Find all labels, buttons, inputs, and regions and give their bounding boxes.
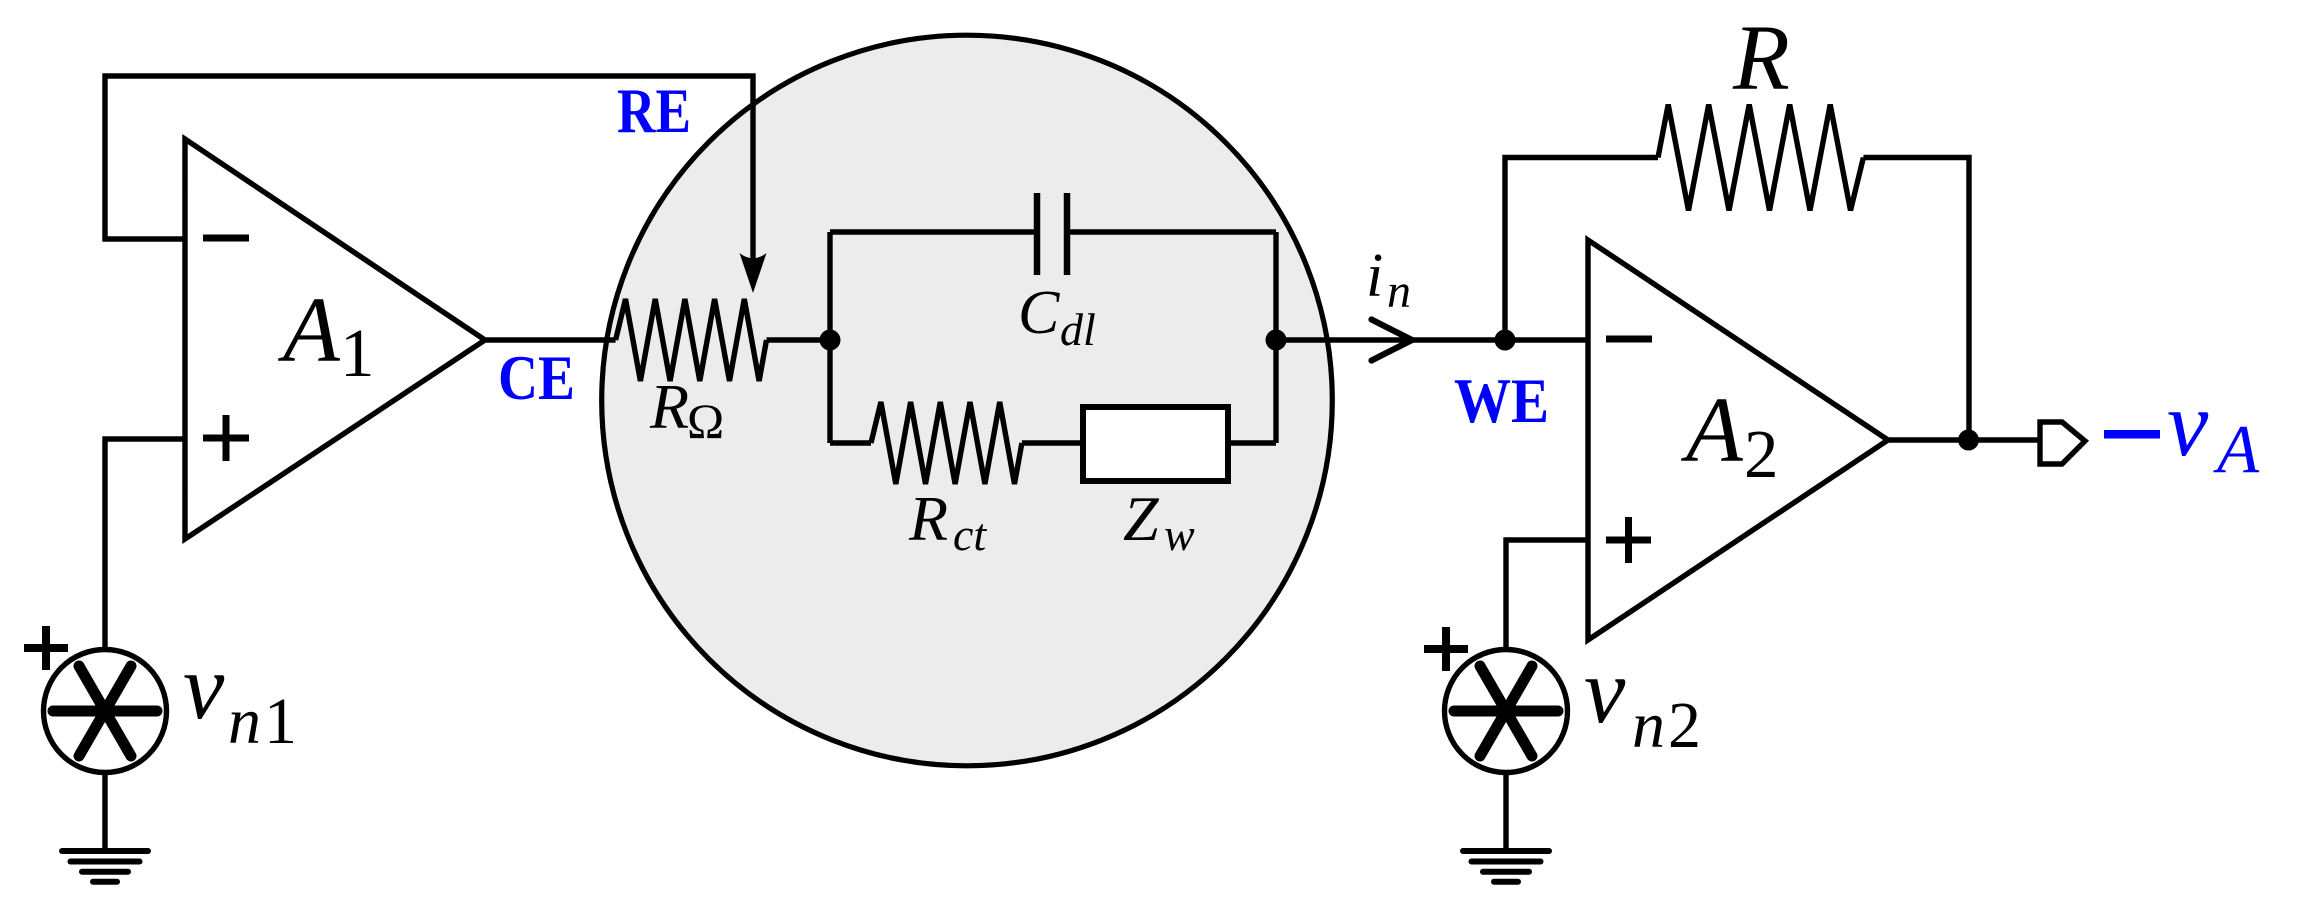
svg-text:Ω: Ω [687, 393, 724, 449]
wire Zw to right junction [1228, 440, 1276, 445]
node label CE [498, 343, 575, 413]
svg-text:v: v [183, 636, 225, 739]
node label RE [617, 76, 691, 146]
svg-text:CE: CE [498, 343, 575, 413]
svg-text:RE: RE [617, 76, 691, 146]
svg-text:R: R [908, 483, 948, 554]
svg-text:Z: Z [1123, 483, 1160, 554]
output tag [2040, 422, 2085, 464]
svg-text:n: n [1632, 689, 1665, 762]
svg-text:2: 2 [1668, 689, 1701, 762]
wire bottom branch left [830, 440, 871, 445]
junction dot output node [1958, 430, 1979, 451]
wire Rct to Zw [1022, 440, 1083, 445]
label Rct [908, 483, 987, 560]
svg-text:v: v [1584, 640, 1626, 743]
wire A2 noninverting input [1506, 540, 1588, 651]
ground GND1 [62, 851, 148, 882]
label Cdl [1018, 279, 1096, 355]
A1 minus pin mark [203, 235, 249, 242]
current arrow in [1372, 320, 1413, 361]
capacitor Cdl [1037, 193, 1067, 275]
wire WE to A2 inverting input [1505, 337, 1588, 342]
node label WE [1454, 365, 1549, 436]
A2 minus pin mark [1606, 336, 1652, 343]
label R [1732, 7, 1790, 110]
vn1 plus polarity mark [24, 626, 68, 670]
vn1 asterisk [53, 666, 157, 756]
svg-text:w: w [1164, 509, 1195, 560]
wire A1 feedback: inverting input to RE [105, 76, 753, 268]
RE arrowhead [740, 253, 767, 293]
resistor Rct [871, 402, 1022, 484]
ground GND2 [1463, 851, 1549, 882]
label vn1 [183, 636, 297, 758]
label -vA [2104, 373, 2260, 487]
svg-text:WE: WE [1454, 365, 1549, 436]
wire A1 output to cell (node CE) [485, 337, 616, 342]
wire vn2 to ground [1503, 773, 1508, 852]
wire left branch vertical [827, 232, 832, 443]
wire A1 noninverting input [105, 439, 185, 650]
junction dot left node [820, 330, 841, 351]
svg-text:v: v [2167, 373, 2209, 476]
wire A2 output [1888, 437, 2038, 442]
wire R_Omega to left junction [767, 337, 831, 342]
svg-text:ct: ct [953, 509, 987, 560]
wire R to output node [1863, 158, 1969, 441]
svg-text:A: A [277, 279, 341, 382]
label A1 [277, 279, 375, 391]
svg-text:dl: dl [1060, 304, 1096, 355]
electrochemical cell boundary [602, 35, 1333, 766]
label A2 [1680, 379, 1779, 492]
noise source vn1 [44, 650, 167, 773]
junction dot right node [1266, 330, 1287, 351]
svg-text:R: R [649, 371, 689, 442]
svg-text:1: 1 [264, 685, 297, 758]
op-amp A1 [185, 139, 485, 539]
vn2 plus polarity mark [1424, 627, 1468, 671]
wire top branch right [1066, 229, 1276, 234]
svg-text:i: i [1366, 242, 1383, 310]
A2 plus pin mark [1606, 517, 1651, 563]
svg-text:n: n [1387, 265, 1411, 318]
wire cell to WE node [1276, 337, 1505, 342]
wire top branch left [830, 229, 1040, 234]
A1 plus pin mark [203, 415, 249, 461]
label in [1366, 242, 1411, 318]
op-amp A2 [1588, 240, 1888, 640]
wire right branch vertical [1273, 232, 1278, 443]
label vn2 [1584, 640, 1701, 762]
wire vn1 to ground [102, 773, 107, 852]
impedance Zw (Warburg) [1083, 407, 1228, 481]
svg-text:A: A [1680, 379, 1744, 482]
label Zw [1123, 483, 1195, 560]
svg-text:n: n [228, 685, 261, 758]
svg-text:1: 1 [340, 315, 375, 391]
node WE junction dot [1495, 330, 1516, 351]
resistor R [1658, 105, 1863, 211]
wire feedback loop of A2 [1505, 158, 1658, 341]
noise source vn2 [1445, 650, 1568, 773]
resistor R_Omega [616, 299, 767, 381]
label R_Omega [649, 371, 724, 449]
svg-text:C: C [1018, 279, 1060, 347]
vn2 asterisk [1454, 666, 1558, 756]
svg-text:A: A [2213, 411, 2260, 487]
svg-text:2: 2 [1744, 416, 1779, 492]
svg-text:R: R [1732, 7, 1790, 110]
